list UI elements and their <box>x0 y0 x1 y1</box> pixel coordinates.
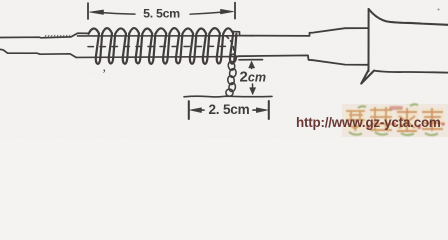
watermark green accents <box>349 104 438 135</box>
watermark chinese glyph 4 <box>422 108 443 131</box>
watermark chinese glyph 1 <box>345 109 366 131</box>
dim 5.5cm line left segment <box>102 13 135 15</box>
wire: cable top edge under coil <box>78 35 239 37</box>
tail bottom horizontal wire <box>184 95 272 98</box>
dashed centerline of cable in coil <box>88 45 228 47</box>
svg-text:5. 5cm: 5. 5cm <box>143 7 180 21</box>
svg-text:’: ’ <box>102 66 106 81</box>
boot face <box>368 9 370 71</box>
dim 2cm up arrow <box>249 61 255 68</box>
watermark red accents <box>366 106 445 129</box>
wire: terminal rod bottom edge <box>0 49 76 57</box>
watermark backdrop tint <box>296 104 448 137</box>
wire: terminal rod top edge <box>0 33 89 38</box>
dim 5.5cm left arrowhead <box>90 10 104 15</box>
tail twist loop 1 <box>229 54 237 64</box>
stray dot top right <box>438 9 440 11</box>
tail twist loop 4 <box>227 75 235 85</box>
wire: cable bottom edge under coil <box>76 56 238 59</box>
dashed wire exiting coil <box>226 36 234 52</box>
tail twist loop 2 <box>228 61 236 71</box>
svg-text:2cm: 2cm <box>240 69 267 86</box>
boot top edge <box>369 9 448 25</box>
tail end curl <box>226 89 233 96</box>
watermark chinese glyph 2 <box>370 107 392 130</box>
wire: cable bottom edge after coil <box>238 55 369 64</box>
svg-text:2. 5cm: 2. 5cm <box>208 102 249 117</box>
dim 2.5cm right arrowhead <box>256 108 268 113</box>
tail twist loop 3 <box>229 68 237 78</box>
dim 2.5cm right tick <box>268 101 270 119</box>
dim 5.5cm right tick <box>234 3 236 19</box>
dim 2.5cm left arrowhead <box>190 108 202 113</box>
dim 2.5cm left tick <box>188 101 190 119</box>
paper background <box>0 0 448 138</box>
boot bottom edge <box>374 71 448 73</box>
tail twist loop 5 <box>228 82 236 92</box>
svg-text:http://www.gz-ycta.com: http://www.gz-ycta.com <box>296 115 441 130</box>
dim 5.5cm line right segment <box>190 12 222 14</box>
coil end step (top) <box>233 32 240 36</box>
dim 2cm down arrow <box>250 88 256 95</box>
watermark chinese glyph 3 <box>396 108 418 131</box>
coil winding <box>89 28 237 64</box>
dim 5.5cm left tick <box>87 3 89 19</box>
scan noise <box>0 0 448 138</box>
wire: cable top edge after coil <box>240 28 369 36</box>
boot bottom-left spike <box>361 70 374 84</box>
dim 2cm top tick <box>239 59 263 61</box>
rod thread serration ticks <box>45 35 70 37</box>
dim 5.5cm right arrowhead <box>221 9 234 14</box>
